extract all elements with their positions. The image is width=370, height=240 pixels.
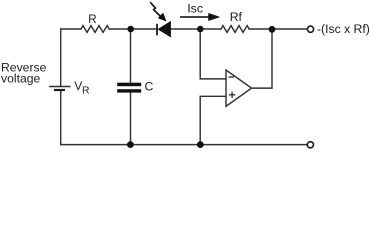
svg-text:Rf: Rf (230, 10, 243, 24)
svg-text:C: C (145, 80, 154, 94)
svg-text:voltage: voltage (1, 72, 41, 86)
svg-text:R: R (82, 86, 90, 97)
svg-text:R: R (88, 13, 96, 26)
svg-text:Isc: Isc (187, 1, 203, 15)
svg-text:-(Isc x Rf): -(Isc x Rf) (317, 22, 370, 36)
